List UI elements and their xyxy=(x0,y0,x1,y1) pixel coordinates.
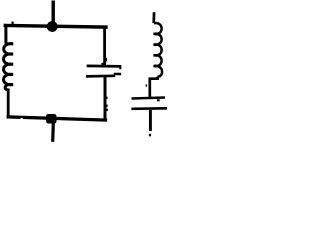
white notch in bottom bus xyxy=(21,118,23,120)
capacitor C2 bottom plate xyxy=(131,107,167,110)
dot below wire end xyxy=(149,134,151,137)
wire left vertical upper xyxy=(4,25,7,44)
wire left vertical lower xyxy=(7,89,10,118)
tick on lower right wire xyxy=(106,109,108,111)
capacitor C1 bottom plate right raised segment xyxy=(114,73,121,76)
junction foot on C1 top plate xyxy=(101,63,106,67)
capacitor C1 top plate xyxy=(87,65,122,68)
node top junction dot xyxy=(47,21,58,32)
tick on lower right wire 3 xyxy=(106,105,108,107)
wire right vertical upper xyxy=(103,27,106,65)
capacitor C2 top plate nub xyxy=(157,99,160,101)
tick on lower right wire 2 xyxy=(106,97,107,99)
wire antenna stub (right branch top lead) xyxy=(152,12,155,23)
wire right vertical lower xyxy=(104,77,107,119)
wire stub down from bottom node xyxy=(51,123,55,142)
node bottom junction blob xyxy=(46,114,56,124)
capacitor C1 bottom plate xyxy=(86,74,115,77)
capacitor C2 top plate xyxy=(132,98,166,99)
wire jog into coil xyxy=(5,42,13,45)
wire jog from coil to capacitor xyxy=(150,77,158,98)
wire bottom horizontal bus xyxy=(8,117,105,120)
speck left of wire xyxy=(146,84,148,86)
wire stub down from C2 xyxy=(149,110,152,131)
tick above top bus xyxy=(12,22,14,25)
inductor L1 (left coil, bumps bulge left) xyxy=(4,44,14,90)
wire top horizontal bus xyxy=(5,25,106,27)
inductor L2 (right coil, bumps bulge right) xyxy=(154,23,162,77)
capacitor C1 top plate right nub below xyxy=(119,67,121,69)
nub on capacitor stub xyxy=(105,58,107,61)
wire stub up from top node xyxy=(52,1,55,23)
